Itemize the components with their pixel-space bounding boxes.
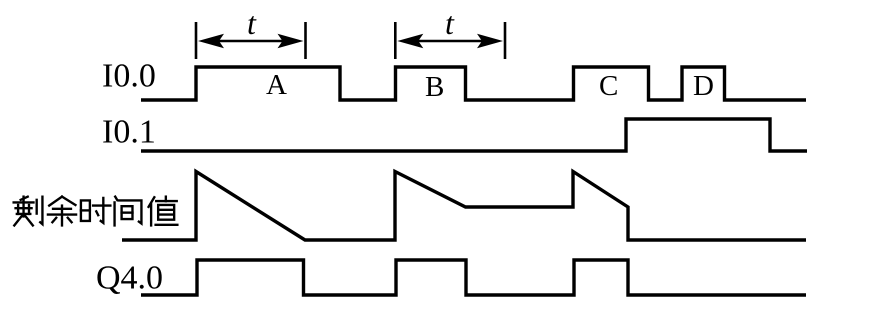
- svg-text:D: D: [693, 70, 714, 102]
- svg-text:t: t: [247, 5, 257, 41]
- dimension t2 left tick: [394, 22, 397, 59]
- char zhi 值: [149, 197, 178, 226]
- dimension t2 right arrowhead: [477, 34, 503, 48]
- dimension t1 left tick: [195, 22, 198, 59]
- dimension t2 right tick: [504, 22, 507, 59]
- dimension t1 left arrowhead: [198, 34, 224, 48]
- svg-text:C: C: [599, 70, 618, 102]
- svg-text:t: t: [445, 5, 455, 41]
- dimension t1 right arrowhead: [278, 34, 304, 48]
- waveform remaining-time-value: [122, 172, 806, 241]
- waveform I0.0: [141, 67, 806, 100]
- svg-text:I0.1: I0.1: [102, 114, 156, 151]
- svg-text:A: A: [266, 69, 287, 101]
- dimension t2 left arrowhead: [397, 34, 423, 48]
- char yu 余: [48, 197, 76, 226]
- svg-text:Q4.0: Q4.0: [96, 260, 163, 297]
- svg-text:I0.0: I0.0: [102, 58, 156, 95]
- dimension t1 right tick: [304, 22, 307, 59]
- char jian 间: [115, 197, 142, 226]
- char sheng 剩: [14, 197, 43, 226]
- svg-text:B: B: [425, 71, 444, 103]
- dimension t2 arrow shaft: [413, 40, 487, 43]
- waveform I0.1: [141, 119, 807, 151]
- dimension t1 arrow shaft: [214, 40, 288, 43]
- label remaining-time-value (drawn CJK strokes): [14, 197, 178, 226]
- char shi 时: [81, 198, 110, 223]
- waveform Q4.0: [141, 260, 806, 295]
